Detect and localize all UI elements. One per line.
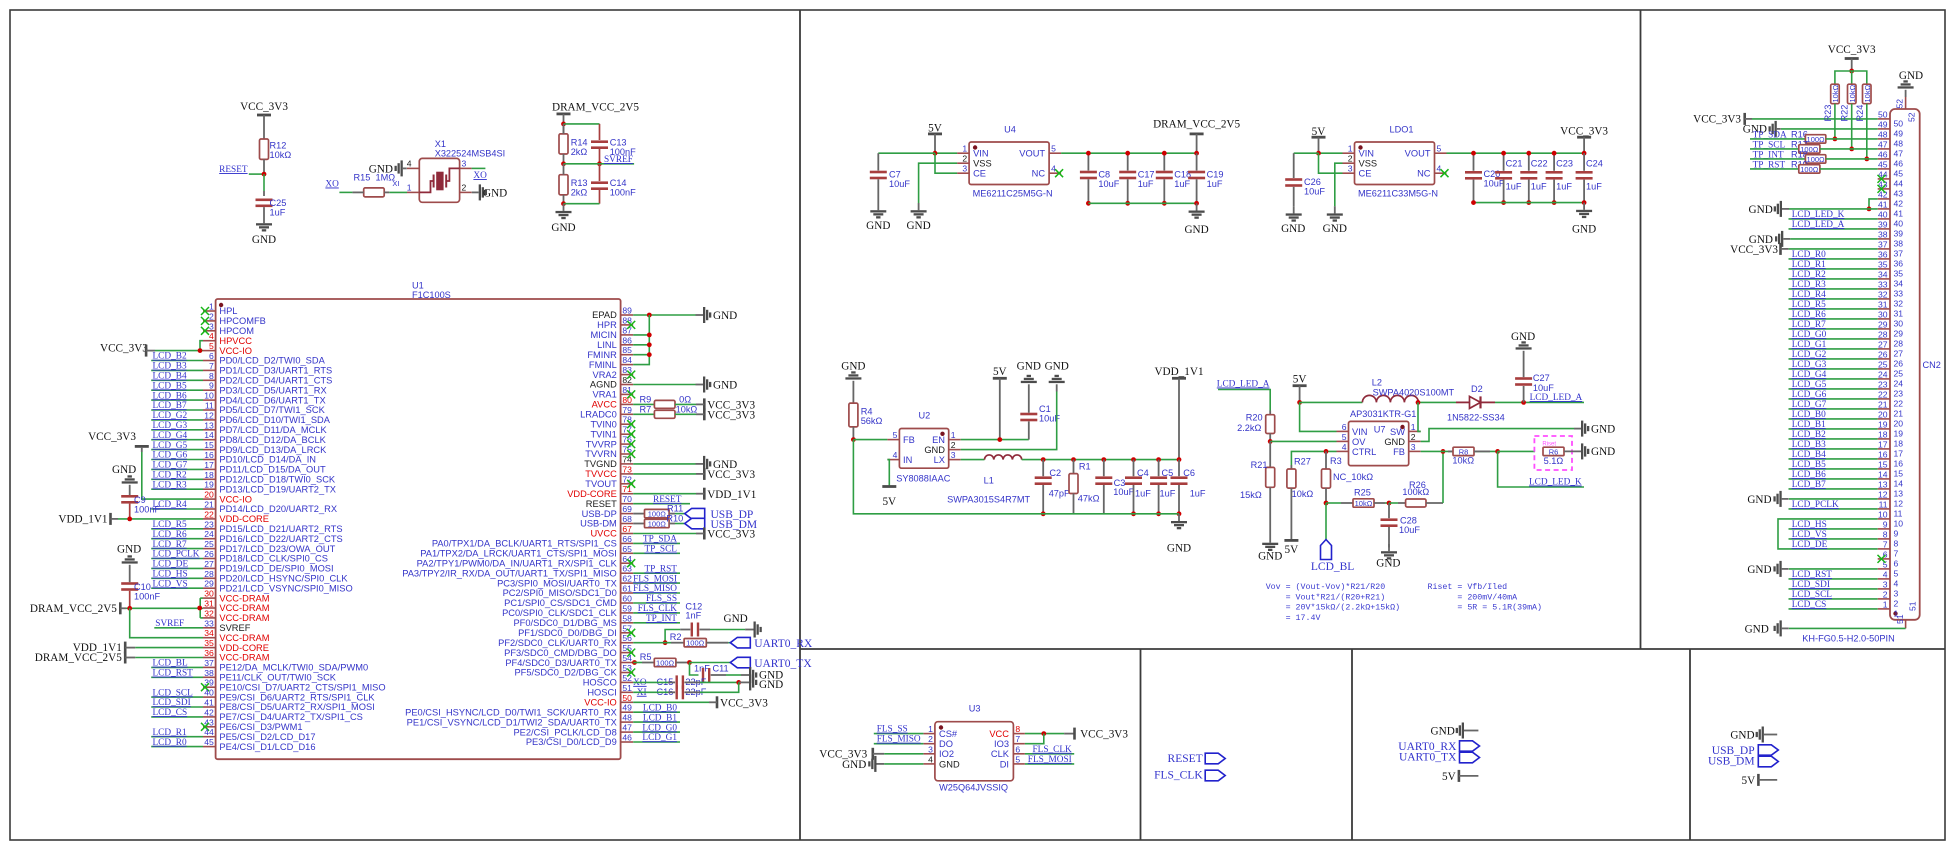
- svg-text:LCD_DE: LCD_DE: [1792, 540, 1828, 550]
- U1 pin 81 VRA1: [593, 385, 636, 400]
- CN2 pin 50: [1878, 110, 1904, 129]
- svg-text:DI: DI: [1000, 759, 1009, 769]
- svg-text:10uF: 10uF: [1098, 179, 1119, 189]
- svg-text:TP_RST: TP_RST: [644, 564, 677, 574]
- svg-text:1: 1: [1883, 600, 1888, 610]
- svg-text:LCD_G3: LCD_G3: [1792, 360, 1827, 370]
- CN2 pin 22: [1789, 390, 1904, 409]
- svg-text:XO: XO: [325, 180, 339, 190]
- net label FLS_MISO U3: [874, 735, 924, 745]
- svg-text:C23: C23: [1556, 159, 1573, 169]
- svg-text:1: 1: [962, 144, 967, 154]
- svg-text:4: 4: [1437, 164, 1442, 174]
- svg-text:49: 49: [622, 703, 632, 713]
- svg-text:TVVRP: TVVRP: [586, 439, 617, 449]
- svg-text:10kΩ: 10kΩ: [1848, 84, 1857, 102]
- svg-text:LCD_G0: LCD_G0: [1792, 330, 1827, 340]
- U1 pin 84 FMINL: [589, 355, 633, 370]
- ground UART box: [1431, 723, 1479, 739]
- U1 pin 51 HOSCI: [587, 683, 633, 698]
- svg-text:LCD_R6: LCD_R6: [153, 530, 187, 540]
- ground CN2 pin52: [1898, 70, 1924, 97]
- wire to LDO1 CE: [1319, 153, 1343, 173]
- port USB_DP: [685, 508, 754, 521]
- svg-text:67: 67: [622, 524, 632, 534]
- svg-text:25: 25: [204, 539, 214, 549]
- svg-text:PE6/CSI_D3/PWM1: PE6/CSI_D3/PWM1: [219, 722, 302, 732]
- svg-text:36: 36: [1878, 250, 1888, 260]
- wire FB to U2: [853, 439, 887, 441]
- junction C15/C16 gnd: [736, 680, 741, 685]
- svg-text:LCD_DE: LCD_DE: [153, 560, 189, 570]
- U1 pin 6 PD0/LCD_D2/TWI0_SDA: [151, 351, 325, 366]
- svg-text:IO3: IO3: [994, 739, 1009, 749]
- wire U3 IO3 to VCC: [1025, 734, 1044, 744]
- capacitor C18 1uF: [1156, 153, 1191, 203]
- capacitor C8 10uF: [1080, 153, 1120, 203]
- U1 pin 30 VCC-DRAM: [203, 589, 270, 604]
- svg-text:PD21/LCD_VSYNC/SPI0_MISO: PD21/LCD_VSYNC/SPI0_MISO: [219, 583, 352, 593]
- svg-text:VCC_3V3: VCC_3V3: [1080, 729, 1128, 741]
- power flag VDD_1V1 to pin 35: [73, 642, 203, 654]
- svg-text:87: 87: [622, 325, 632, 335]
- svg-text:29: 29: [1878, 320, 1888, 330]
- resistor R14 2k: [559, 124, 588, 164]
- svg-text:LCD_VS: LCD_VS: [1792, 530, 1827, 540]
- U1 pin 37 PE12/DA_MCLK/TWI0_SDA/PWM0: [151, 658, 368, 673]
- svg-text:VCC-DRAM: VCC-DRAM: [219, 613, 269, 623]
- svg-text:28: 28: [1894, 339, 1904, 349]
- svg-text:24: 24: [1894, 379, 1904, 389]
- svg-text:37: 37: [1894, 249, 1904, 259]
- Riset dashed box: [1534, 436, 1572, 470]
- svg-text:PE7/CSI_D4/UART2_TX/SPI1_CS: PE7/CSI_D4/UART2_TX/SPI1_CS: [219, 712, 362, 722]
- CN2 pin 10: [1878, 510, 1904, 529]
- svg-text:C17: C17: [1138, 170, 1155, 180]
- net label SVREF pin 33: [154, 619, 203, 629]
- ground CN2 pin12: [1747, 491, 1877, 507]
- CN2 pin 8: [1789, 530, 1899, 549]
- svg-text:VCC_3V3: VCC_3V3: [1560, 125, 1608, 137]
- CN2 pin 9: [1789, 520, 1899, 539]
- svg-text:35: 35: [1894, 269, 1904, 279]
- svg-text:TVIN0: TVIN0: [590, 419, 616, 429]
- junction EPAD chain: [647, 313, 652, 318]
- svg-text:LCD_R2: LCD_R2: [1792, 270, 1826, 280]
- svg-text:VCC-DRAM: VCC-DRAM: [219, 633, 269, 643]
- svg-text:TVIN1: TVIN1: [590, 429, 616, 439]
- svg-text:LCD_B1: LCD_B1: [643, 713, 677, 723]
- svg-text:15: 15: [204, 440, 214, 450]
- svg-text:VIN: VIN: [973, 149, 989, 159]
- svg-text:R25: R25: [1354, 488, 1371, 498]
- svg-text:VCC_3V3: VCC_3V3: [1693, 114, 1741, 126]
- ground AGND: [696, 377, 738, 393]
- svg-text:LCD_BL: LCD_BL: [1311, 561, 1354, 573]
- resistor R2 100R: [633, 632, 730, 648]
- svg-text:C22: C22: [1531, 159, 1548, 169]
- capacitor C15 22pF XO: [633, 675, 739, 689]
- svg-text:5.1Ω: 5.1Ω: [1544, 456, 1564, 466]
- junction pin56: [663, 640, 668, 645]
- svg-text:47kΩ: 47kΩ: [1078, 494, 1100, 504]
- svg-text:19: 19: [1878, 420, 1888, 430]
- svg-text:25: 25: [1878, 360, 1888, 370]
- U1 pin 33 SVREF: [203, 618, 251, 633]
- U1 pin 76 TVVRP: [586, 435, 635, 450]
- wire cap ground bus LDO1: [1474, 202, 1585, 204]
- svg-text:34: 34: [1878, 270, 1888, 280]
- U1 pin 65 PA1/TPX2/DA_LRCK/UART1_CTS/SPI1_MOSI: [420, 544, 680, 559]
- svg-text:100Ω: 100Ω: [686, 639, 705, 648]
- svg-text:NC: NC: [1417, 169, 1431, 179]
- power flag VDD_1V1: [1154, 366, 1203, 460]
- wire TVGND to GND: [633, 463, 695, 465]
- svg-text:32: 32: [1878, 290, 1888, 300]
- resistor R26 100k: [1389, 480, 1443, 507]
- svg-text:AP3031KTR-G1: AP3031KTR-G1: [1350, 409, 1416, 419]
- svg-text:9: 9: [209, 381, 214, 391]
- svg-text:LCD_G2: LCD_G2: [153, 411, 188, 421]
- junction R3 top: [1324, 449, 1329, 454]
- ground above C1: [1017, 361, 1041, 392]
- svg-text:100Ω: 100Ω: [656, 659, 675, 668]
- svg-text:LCD_B6: LCD_B6: [153, 391, 187, 401]
- svg-text:17: 17: [204, 460, 214, 470]
- U1 pin 45 PE4/CSI_D1/LCD_D16: [151, 737, 315, 752]
- svg-text:GND: GND: [112, 464, 136, 476]
- svg-text:85: 85: [622, 345, 632, 355]
- svg-text:VDD_1V1: VDD_1V1: [1154, 366, 1203, 378]
- svg-text:PD12/LCD_D18/TWI0_SCK: PD12/LCD_D18/TWI0_SCK: [219, 475, 336, 485]
- svg-text:11: 11: [1879, 500, 1888, 510]
- svg-text:LCD_B4: LCD_B4: [153, 372, 187, 382]
- svg-text:5: 5: [1051, 144, 1056, 154]
- svg-text:R21: R21: [1251, 460, 1268, 470]
- U1 pin 10 PD4/LCD_D6/UART1_TX: [151, 391, 325, 406]
- power flag VDD_1V1 to pin 22: [58, 513, 203, 526]
- svg-text:2.2kΩ: 2.2kΩ: [1237, 423, 1261, 433]
- svg-text:26: 26: [204, 549, 214, 559]
- junction C17 top: [1125, 151, 1130, 156]
- wire LX to L1: [961, 459, 985, 461]
- resistor R25 10k: [1326, 488, 1389, 509]
- buck converter U2 SY8088IAAC: [887, 411, 960, 484]
- svg-text:FLS_CLK: FLS_CLK: [1154, 770, 1203, 782]
- svg-text:10: 10: [1878, 510, 1888, 520]
- svg-text:46: 46: [622, 733, 632, 743]
- svg-text:PF2/SDC0_CLK/UART0_RX: PF2/SDC0_CLK/UART0_RX: [498, 638, 617, 648]
- capacitor C12 1nF: [665, 602, 745, 643]
- svg-text:HPL: HPL: [219, 306, 237, 316]
- svg-text:LCD_G6: LCD_G6: [153, 451, 188, 461]
- CN2 pin 3: [1789, 580, 1899, 599]
- U1 pin 46 PE3/CSI_D0/LCD_D9: [526, 733, 680, 748]
- ground LDO1 caps: [1572, 203, 1596, 236]
- ground EPAD: [696, 307, 738, 323]
- svg-text:4: 4: [209, 331, 214, 341]
- wire L2 to D2: [1419, 401, 1456, 403]
- svg-text:LCD_G4: LCD_G4: [153, 431, 188, 441]
- svg-text:27: 27: [1878, 340, 1888, 350]
- svg-text:LCD_R0: LCD_R0: [1792, 250, 1826, 260]
- CN2 pin 18: [1789, 430, 1904, 449]
- svg-text:6: 6: [209, 351, 214, 361]
- svg-text:10uF: 10uF: [1113, 487, 1134, 497]
- svg-text:TP_INT: TP_INT: [646, 614, 677, 624]
- svg-text:58: 58: [622, 613, 632, 623]
- CN2 pin 49: [1878, 120, 1904, 139]
- U1 pin 19 PD13/LCD_D19/UART2_TX: [151, 480, 336, 495]
- CN2 pin 41: [1878, 200, 1904, 219]
- ground CN2 pin5: [1747, 561, 1877, 577]
- svg-text:LCD_G1: LCD_G1: [642, 733, 677, 743]
- svg-text:GND: GND: [866, 220, 890, 232]
- U1 pin 8 PD2/LCD_D4/UART1_CTS: [151, 371, 332, 386]
- svg-text:X1: X1: [435, 139, 446, 149]
- svg-text:36: 36: [1894, 259, 1904, 269]
- ground below C7: [866, 203, 890, 232]
- svg-text:CN2: CN2: [1923, 360, 1941, 370]
- resistor R10 100R: [633, 514, 685, 529]
- svg-text:33: 33: [1878, 280, 1888, 290]
- svg-text:19: 19: [1894, 429, 1904, 439]
- ground below C25: [252, 216, 276, 246]
- svg-text:LCD_G6: LCD_G6: [1792, 390, 1827, 400]
- svg-text:31: 31: [1878, 300, 1888, 310]
- svg-text:PD17/LCD_D23/OWA_OUT: PD17/LCD_D23/OWA_OUT: [219, 544, 335, 554]
- svg-text:PD0/LCD_D2/TWI0_SDA: PD0/LCD_D2/TWI0_SDA: [219, 356, 325, 366]
- svg-text:LCD_B3: LCD_B3: [1792, 440, 1826, 450]
- svg-text:LRADC0: LRADC0: [580, 410, 617, 420]
- svg-text:HPVCC: HPVCC: [219, 336, 252, 346]
- svg-text:L1: L1: [984, 476, 994, 486]
- ground CN2 pin41: [1749, 201, 1878, 217]
- svg-text:10kΩ: 10kΩ: [270, 150, 292, 160]
- svg-text:C10: C10: [134, 582, 151, 592]
- svg-text:51: 51: [1908, 601, 1918, 611]
- ground below R21: [1258, 536, 1282, 563]
- resistor R11 100R: [633, 504, 685, 519]
- svg-text:TVOUT: TVOUT: [585, 479, 617, 489]
- U1 pin 50 VCC-IO: [584, 693, 633, 708]
- svg-text:22: 22: [1878, 390, 1888, 400]
- svg-text:PD2/LCD_D4/UART1_CTS: PD2/LCD_D4/UART1_CTS: [219, 376, 332, 386]
- U1 pin 40 PE9/CSI_D6/UART2_RTS/SPI1_CLK: [151, 688, 375, 703]
- svg-text:34: 34: [1894, 279, 1904, 289]
- svg-text:VSS: VSS: [973, 159, 992, 169]
- U1 pin 34 VCC-DRAM: [203, 628, 270, 643]
- svg-text:LCD_R1: LCD_R1: [1792, 260, 1826, 270]
- svg-text:51: 51: [1895, 614, 1905, 624]
- svg-text:PC2/SPI0_MISO/SDC1_D0: PC2/SPI0_MISO/SDC1_D0: [503, 588, 617, 598]
- svg-text:GND: GND: [713, 380, 737, 392]
- net label FLS_MOSI U3: [1025, 755, 1074, 765]
- svg-text:GND: GND: [1747, 564, 1771, 576]
- U1 pin 56 PF2/SDC0_CLK/UART0_RX: [498, 633, 633, 648]
- svg-text:GND: GND: [759, 679, 783, 691]
- svg-text:GND: GND: [1572, 224, 1596, 236]
- CN2 pin 28: [1789, 330, 1904, 349]
- svg-text:KH-FG0.5-H2.0-50PIN: KH-FG0.5-H2.0-50PIN: [1802, 634, 1894, 644]
- svg-text:1uF: 1uF: [1586, 182, 1602, 192]
- svg-text:VCC-IO: VCC-IO: [219, 494, 252, 504]
- svg-text:R7: R7: [640, 404, 652, 414]
- U1 pin 32 VCC-DRAM: [203, 608, 270, 623]
- port USB_DP bottom: [1712, 745, 1779, 757]
- svg-text:45: 45: [204, 737, 214, 747]
- svg-text:GND: GND: [1511, 331, 1535, 343]
- svg-text:VDD_1V1: VDD_1V1: [707, 489, 756, 501]
- svg-text:1N5822-SS34: 1N5822-SS34: [1447, 413, 1505, 423]
- svg-text:LCD_B0: LCD_B0: [1792, 410, 1826, 420]
- capacitor C9 100nF: [112, 464, 160, 519]
- svg-text:45: 45: [1894, 169, 1904, 179]
- resistor R22 10k pull-up: [1840, 84, 1857, 149]
- svg-text:R2: R2: [670, 632, 682, 642]
- CN2 pin 47: [1878, 140, 1904, 159]
- power flag VCC_3V3 at pin50: [633, 696, 768, 709]
- U1 pin 78 TVIN0: [590, 415, 635, 430]
- U1 pin 61 PC2/SPI0_MISO/SDC1_D0: [503, 584, 680, 599]
- svg-text:LCD_B2: LCD_B2: [1792, 430, 1826, 440]
- U1 pin 27 PD19/LCD_DE/SPI0_MOSI: [151, 559, 333, 574]
- svg-text:VRA1: VRA1: [593, 390, 617, 400]
- power flag 5V at LDO1: [1312, 126, 1326, 153]
- svg-text:5V: 5V: [993, 366, 1007, 378]
- svg-text:68: 68: [622, 514, 632, 524]
- svg-text:89: 89: [622, 306, 632, 316]
- junction C21 bottom: [1501, 200, 1506, 205]
- wire DRAM node to pin 34: [130, 608, 203, 637]
- svg-text:LCD_PCLK: LCD_PCLK: [1792, 500, 1839, 510]
- svg-text:73: 73: [622, 464, 632, 474]
- svg-text:DRAM_VCC_2V5: DRAM_VCC_2V5: [1153, 119, 1240, 131]
- svg-text:31: 31: [1894, 309, 1904, 319]
- power flag 5V above EN: [993, 366, 1007, 440]
- svg-text:4: 4: [1883, 570, 1888, 580]
- svg-text:R24: R24: [1855, 105, 1865, 122]
- svg-text:19: 19: [204, 480, 214, 490]
- svg-text:PC3/SPI0_MOSI/UART0_TX: PC3/SPI0_MOSI/UART0_TX: [497, 578, 617, 588]
- svg-text:ME6211C33M5G-N: ME6211C33M5G-N: [1358, 189, 1438, 199]
- regulator U4 ME6211C25M5G-N: [957, 125, 1063, 199]
- CN2 pin 6: [1878, 550, 1899, 569]
- svg-text:2: 2: [928, 734, 933, 744]
- svg-text:NC: NC: [1032, 169, 1046, 179]
- svg-text:63: 63: [622, 564, 632, 574]
- svg-text:41: 41: [1894, 209, 1904, 219]
- U1 pin 9 PD3/LCD_D5/UART1_RX: [151, 381, 327, 396]
- svg-text:LCD_LED_A: LCD_LED_A: [1217, 380, 1270, 390]
- power flag DRAM_VCC_2V5 to pins 30-32: [30, 602, 203, 615]
- svg-text:4: 4: [1342, 442, 1347, 452]
- svg-text:2kΩ: 2kΩ: [571, 188, 588, 198]
- port USB_DM bottom: [1708, 756, 1778, 768]
- svg-text:37: 37: [1878, 240, 1888, 250]
- svg-text:38: 38: [1878, 230, 1888, 240]
- svg-text:2kΩ: 2kΩ: [571, 147, 588, 157]
- resistor R17 100R TP_SCL: [1750, 139, 1878, 154]
- wire 5V to VIN: [935, 152, 957, 154]
- svg-text:ME6211C25M5G-N: ME6211C25M5G-N: [973, 189, 1053, 199]
- svg-text:FLS_MISO: FLS_MISO: [633, 584, 677, 594]
- svg-text:C9: C9: [134, 495, 146, 505]
- svg-text:DRAM_VCC_2V5: DRAM_VCC_2V5: [552, 101, 639, 113]
- svg-text:LCD_R5: LCD_R5: [1792, 300, 1826, 310]
- svg-text:VDD_1V1: VDD_1V1: [58, 514, 107, 526]
- svg-text:PD16/LCD_D22/UART2_CTS: PD16/LCD_D22/UART2_CTS: [219, 534, 342, 544]
- svg-text:100kΩ: 100kΩ: [1402, 487, 1429, 497]
- U1 pin 36 VCC-DRAM: [203, 648, 270, 663]
- resistor R24 10k pull-up: [1855, 84, 1872, 159]
- CN2 pin 27: [1789, 340, 1904, 359]
- svg-text:24: 24: [204, 529, 214, 539]
- svg-text:R9: R9: [640, 394, 652, 404]
- junction C21 top: [1501, 151, 1506, 156]
- svg-text:DRAM_VCC_2V5: DRAM_VCC_2V5: [30, 603, 117, 615]
- svg-text:PE3/CSI_D0/LCD_D9: PE3/CSI_D0/LCD_D9: [526, 737, 617, 747]
- CN2 pin 2: [1789, 590, 1899, 609]
- svg-text:PA1/TPX2/DA_LRCK/UART1_CTS/SPI: PA1/TPX2/DA_LRCK/UART1_CTS/SPI1_MOSI: [420, 549, 617, 559]
- svg-text:EN: EN: [932, 435, 945, 445]
- U1 pin 75 TVVRN: [585, 445, 635, 460]
- svg-text:OV: OV: [1352, 437, 1366, 447]
- svg-text:C24: C24: [1586, 159, 1603, 169]
- port FLS_CLK bottom: [1154, 770, 1225, 782]
- svg-text:13: 13: [1894, 489, 1904, 499]
- X1 pin 1 XI: [389, 179, 419, 192]
- U1 pin 41 PE8/CSI_D5/UART2_RX/SPI1_MOSI: [151, 698, 375, 713]
- junction C23 top: [1552, 151, 1557, 156]
- svg-text:GND: GND: [1591, 446, 1615, 458]
- power flag VCC_3V3 CN2 pin50: [1693, 113, 1878, 126]
- op-amp U1 F1C100S body: [216, 281, 621, 760]
- U1 pin 14 PD8/LCD_D12/DA_BCLK: [151, 430, 326, 445]
- U1 pin 29 PD21/LCD_VSYNC/SPI0_MISO: [151, 579, 353, 594]
- junction divider bottom: [561, 201, 566, 206]
- wire AGND to GND: [633, 384, 695, 386]
- svg-text:39: 39: [1894, 229, 1904, 239]
- svg-text:LCD_G7: LCD_G7: [153, 461, 188, 471]
- svg-text:7: 7: [1894, 549, 1899, 559]
- junction LINL: [647, 342, 652, 347]
- net label RESET: [219, 165, 264, 175]
- svg-text:LCD_SCL: LCD_SCL: [1792, 590, 1833, 600]
- svg-text:VSS: VSS: [1359, 159, 1378, 169]
- svg-text:CS#: CS#: [939, 729, 958, 739]
- U1 pin 2 HPCOMFB: [201, 311, 266, 326]
- svg-text:41: 41: [1878, 200, 1888, 210]
- svg-text:VDD-CORE: VDD-CORE: [219, 514, 269, 524]
- U1 pin 74 TVGND: [584, 454, 633, 469]
- svg-text:16: 16: [204, 450, 214, 460]
- U1 pin 60 PC1/SPI0_CS/SDC1_CMD: [504, 594, 680, 609]
- power flag 5V below U2: [882, 485, 896, 508]
- svg-text:4: 4: [407, 158, 412, 168]
- inductor L1 SWPA3015S4R7MT: [947, 455, 1030, 505]
- LED driver U7 AP3031KTR-G1: [1337, 409, 1421, 466]
- svg-text:GND: GND: [906, 220, 930, 232]
- junction LDO1 rail corner: [1582, 151, 1587, 156]
- junction R22 at pin 47: [1849, 147, 1854, 152]
- svg-text:3: 3: [462, 158, 467, 168]
- svg-text:25: 25: [1894, 369, 1904, 379]
- svg-text:FLS_MOSI: FLS_MOSI: [633, 574, 677, 584]
- capacitor C21 1uF: [1495, 153, 1522, 202]
- junction 5V node: [1297, 400, 1302, 405]
- svg-text:MICIN: MICIN: [590, 330, 616, 340]
